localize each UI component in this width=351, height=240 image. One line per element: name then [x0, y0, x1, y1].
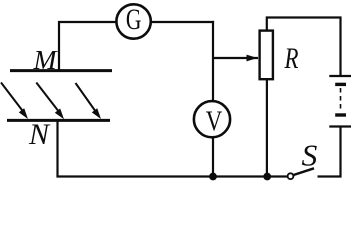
svg-text:N: N [28, 119, 51, 151]
light ray arrow 3 [76, 83, 102, 119]
light ray arrow 2 [36, 83, 64, 120]
svg-text:R: R [284, 42, 299, 75]
photocell plate M [10, 69, 112, 72]
wire: galvanometer right to top corner node [151, 21, 214, 23]
label S [302, 137, 318, 172]
galvanometer G [116, 3, 150, 39]
bottom wire: left corner to switch contact [57, 175, 288, 177]
battery (two cells with dashed continuation) [329, 76, 351, 127]
wire: battery negative down and left to switch [318, 127, 341, 177]
wire: vertical down from top corner to voltmeter [212, 21, 214, 101]
junction dot: voltmeter branch on bottom wire [209, 173, 217, 181]
wire: rheostat top up, right, and down to battery positive [267, 18, 341, 77]
label M [32, 45, 58, 75]
label N [28, 119, 51, 151]
wire: plate N down to bottom wire [56, 120, 58, 178]
junction dot: rheostat branch on bottom wire [263, 173, 271, 181]
photocell plate N [7, 119, 110, 122]
label R [284, 42, 299, 75]
svg-text:M: M [32, 45, 58, 75]
voltmeter V [194, 101, 230, 137]
wire: rheostat bottom down to bottom junction [266, 80, 268, 177]
wire: voltmeter down to bottom junction [212, 138, 214, 178]
light ray arrow 1 [1, 83, 28, 120]
switch S [288, 168, 314, 179]
rheostat wiper arrow [213, 55, 258, 62]
rheostat R (body) [260, 31, 273, 80]
svg-text:G: G [126, 3, 142, 36]
svg-text:S: S [302, 137, 318, 172]
wire: plate M up and right to galvanometer [59, 22, 116, 70]
svg-text:V: V [206, 105, 223, 137]
